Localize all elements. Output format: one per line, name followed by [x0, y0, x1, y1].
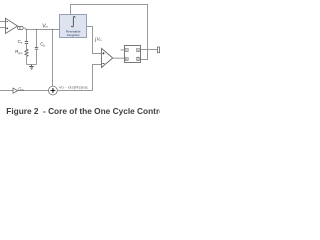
svg-text:Integrator: Integrator	[67, 33, 80, 37]
wire Cz to Rgm	[26, 44, 28, 50]
wire Vm node down to Cz	[26, 30, 28, 42]
op-amp U1 (gm error amplifier triangle)	[6, 18, 18, 33]
flip-flop U4 box	[125, 46, 141, 63]
wire riser to comparator inverting input	[93, 65, 102, 91]
terminal connector at right edge	[158, 47, 160, 53]
wire integrator output to comparator non-inverting input	[87, 27, 102, 54]
wire riser from Vm node down to summing junction	[52, 30, 54, 87]
svg-text:gm: gm	[19, 51, 24, 55]
junction dot at Cz branch	[26, 29, 28, 31]
resistor Rgm	[25, 49, 28, 57]
svg-text:Vo - Gs(Rs)Iac: Vo - Gs(Rs)Iac	[59, 86, 89, 90]
pin S	[125, 48, 128, 51]
wire Vm node down to Cp	[36, 30, 38, 48]
op-amp U1 plus sign	[6, 28, 8, 30]
wire Cp to ground rail	[36, 49, 38, 64]
wire Rgm to ground rail	[26, 57, 28, 65]
op-amp U1 current-output double circle	[18, 26, 21, 29]
comparator minus sign	[102, 62, 104, 64]
op-amp U1 minus sign	[6, 21, 8, 23]
wire Q output to terminal	[141, 49, 158, 51]
wire bottom input rail	[0, 90, 49, 92]
wire clock stub to S input	[121, 49, 125, 51]
junction dot on Q output line	[147, 49, 148, 50]
comparator plus sign	[102, 52, 104, 54]
wire ground rail	[27, 64, 37, 66]
wire summing junction to comparator riser	[57, 90, 92, 92]
pin R	[125, 57, 128, 60]
wire comparator output to R input	[113, 57, 125, 59]
wire Vm node horizontal	[26, 29, 60, 31]
buffer Gdc (gain block triangle)	[13, 88, 18, 93]
op-amp U1 input wire (inverting)	[0, 21, 6, 23]
capacitor Cp	[35, 47, 38, 49]
pin Q	[136, 48, 139, 51]
junction dot at summing riser	[52, 29, 54, 31]
wire reset feedback: integrator top, across top, down to Q-bar	[71, 5, 148, 60]
summing junction	[49, 86, 58, 95]
op-amp U1 input wire (non-inverting)	[0, 27, 6, 29]
svg-text:S: S	[126, 48, 128, 52]
ground	[29, 65, 34, 70]
resettable integrator block U2	[60, 15, 87, 38]
svg-text:- Core of the One Cycle Contro: - Core of the One Cycle Control	[43, 106, 160, 116]
wire from amp output down to Vm wire	[23, 28, 25, 30]
junction dot at Cp branch	[36, 29, 38, 31]
capacitor Cz	[25, 42, 28, 44]
pin Q-bar	[136, 57, 139, 60]
svg-text:Figure 2: Figure 2	[6, 106, 39, 116]
integral symbol	[71, 17, 75, 27]
comparator U3	[102, 48, 113, 67]
